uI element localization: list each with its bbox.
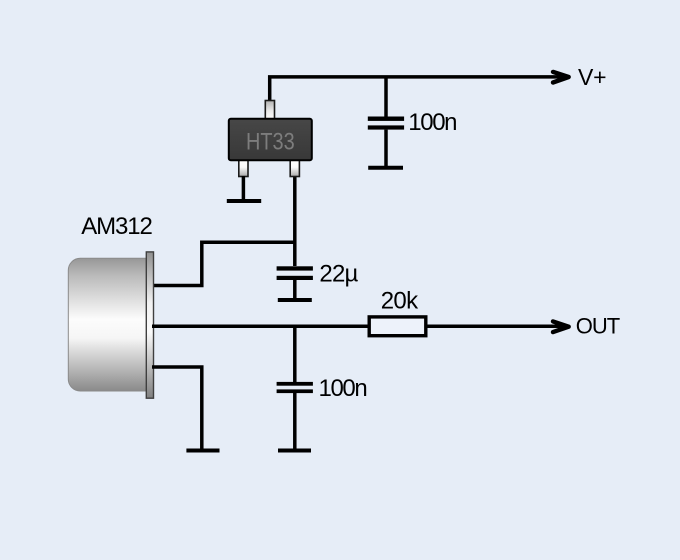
wire top rail V+: [270, 77, 565, 102]
svg-text:V+: V+: [578, 64, 606, 90]
wire resistor to OUT: [428, 325, 566, 329]
sensor AM312 body: [68, 252, 153, 398]
node OUT arrow: [553, 321, 569, 332]
wire HT33 output down to 22u: [293, 175, 297, 266]
wire 100n bottom cap to middle rail: [293, 326, 297, 382]
ground (C1): [368, 166, 403, 170]
wire AM312 bottom pin to ground: [152, 367, 202, 449]
svg-text:OUT: OUT: [576, 314, 620, 339]
sensor AM312 label: [81, 213, 152, 240]
wire AM312 top pin to regulator output node: [152, 242, 295, 285]
wire middle rail from AM312 out pin: [152, 325, 368, 329]
resistor R1 20k: [369, 317, 426, 336]
capacitor C2 22u: [277, 266, 313, 298]
svg-text:20k: 20k: [381, 288, 419, 315]
node OUT label: [576, 314, 620, 339]
svg-text:HT33: HT33: [246, 128, 295, 155]
value label 100n (top): [408, 109, 456, 136]
regulator U1 HT33: [229, 101, 312, 177]
node V+ label: [578, 64, 606, 90]
ground (C2): [278, 298, 312, 302]
svg-text:22µ: 22µ: [319, 260, 358, 287]
wire HT33 ground pin: [242, 176, 246, 200]
svg-text:AM312: AM312: [81, 213, 152, 240]
ground (HT33): [227, 199, 261, 203]
node V+ arrow: [553, 72, 569, 83]
svg-text:100n: 100n: [408, 109, 456, 136]
value label 22u: [319, 260, 358, 287]
ground (C3): [278, 449, 311, 453]
value label 100n (bottom): [319, 375, 367, 402]
ground (AM312): [186, 449, 219, 453]
value label 20k: [381, 288, 419, 315]
capacitor C3 100n (bottom): [277, 382, 313, 449]
wire 100n top cap to rail: [384, 77, 388, 117]
capacitor C1 100n (top): [368, 117, 404, 167]
svg-text:100n: 100n: [319, 375, 367, 402]
